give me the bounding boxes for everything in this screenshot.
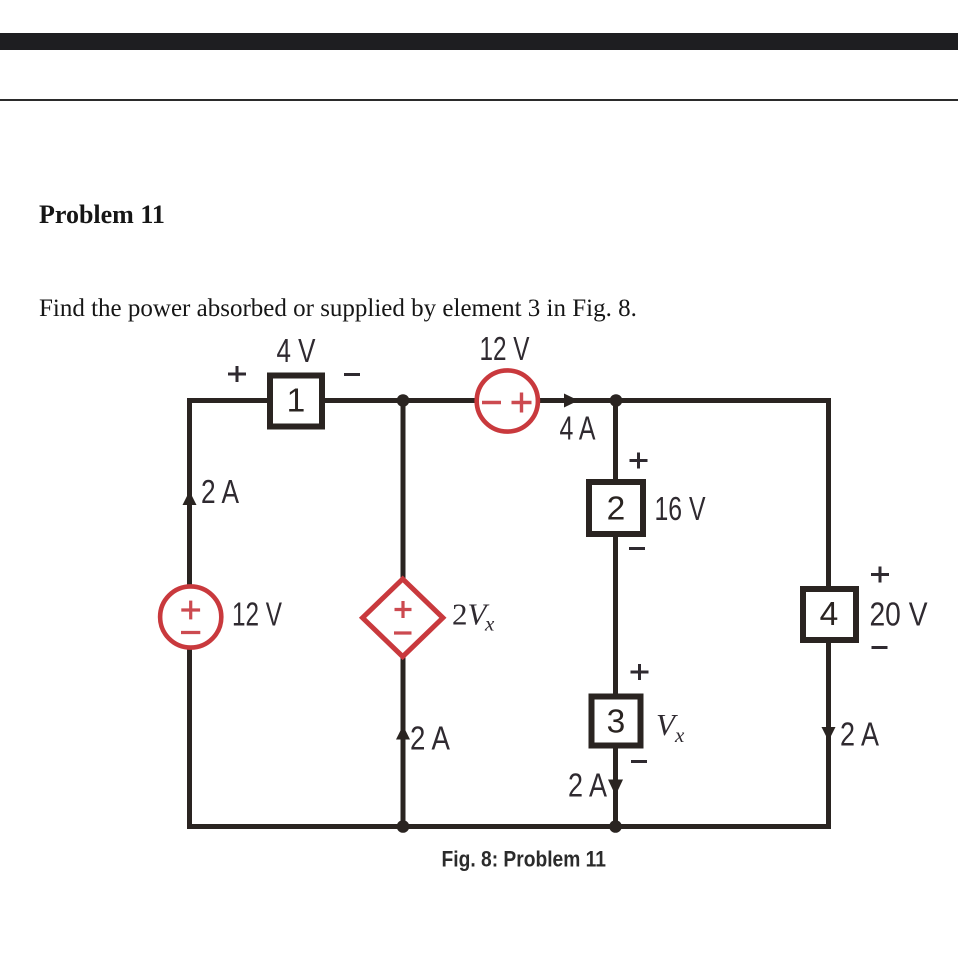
polarity - element 1 bbox=[344, 373, 360, 376]
svg-text:2 A: 2 A bbox=[201, 473, 239, 510]
element box 3 bbox=[592, 697, 641, 746]
node C bottom-middle junction bbox=[397, 820, 410, 833]
wire left vertical lower bbox=[187, 648, 192, 829]
wire element-2-3 branch lower bbox=[613, 745, 618, 827]
label 2Vx bbox=[452, 597, 495, 636]
wire middle branch upper bbox=[401, 401, 406, 583]
polarity - element 4 bbox=[872, 646, 888, 649]
svg-text:2 A: 2 A bbox=[410, 720, 450, 757]
node D bottom element-3 junction bbox=[609, 820, 622, 833]
voltage source V1 12V top (circle - +) bbox=[477, 370, 538, 431]
wire left vertical upper bbox=[187, 398, 192, 586]
svg-text:12 V: 12 V bbox=[480, 330, 530, 367]
wire middle branch lower bbox=[401, 654, 406, 827]
arrow 2A element-3 branch (down) bbox=[608, 780, 623, 796]
svg-text:12 V: 12 V bbox=[232, 596, 282, 633]
svg-text:1: 1 bbox=[287, 383, 306, 420]
wire top left segment bbox=[187, 398, 268, 403]
top black bar bbox=[0, 33, 958, 50]
svg-text:Fig. 8: Problem 11: Fig. 8: Problem 11 bbox=[442, 847, 607, 872]
svg-text:2V: 2V bbox=[452, 597, 490, 632]
element box 4 bbox=[803, 589, 856, 640]
wire top middle segment bbox=[324, 398, 477, 403]
polarity - element 2 bbox=[629, 547, 645, 550]
svg-text:4 V: 4 V bbox=[277, 332, 316, 369]
polarity + element 3 bbox=[631, 664, 649, 680]
svg-text:16 V: 16 V bbox=[655, 490, 706, 527]
svg-text:2 A: 2 A bbox=[568, 767, 607, 804]
wire top right segment bbox=[538, 398, 831, 403]
polarity - element 3 bbox=[631, 760, 647, 763]
arrow 4A current (right) bbox=[564, 394, 579, 408]
polarity + element 4 bbox=[871, 567, 889, 583]
svg-text:2: 2 bbox=[607, 491, 626, 528]
horizontal rule bbox=[0, 99, 958, 101]
voltage source V2 12V left (circle +/-) bbox=[160, 586, 221, 647]
wire right vertical upper bbox=[826, 398, 831, 589]
label Vx bbox=[656, 707, 685, 747]
node A top-middle junction bbox=[397, 394, 410, 407]
element box 2 bbox=[589, 482, 643, 534]
arrow 2A right branch (down) bbox=[822, 727, 836, 741]
wire bottom bbox=[187, 824, 831, 829]
wire element-2-3 branch upper bbox=[613, 401, 618, 483]
element box 1 bbox=[270, 376, 322, 427]
dependent source 2Vx (diamond) bbox=[363, 579, 443, 657]
wire right vertical lower bbox=[826, 640, 831, 829]
svg-text:4 A: 4 A bbox=[560, 410, 596, 447]
svg-text:x: x bbox=[484, 612, 495, 636]
heading Problem 11 bbox=[39, 200, 165, 230]
node B top element-2 junction bbox=[610, 394, 623, 407]
polarity + element 2 bbox=[630, 453, 648, 469]
wire element-2-3 branch middle bbox=[613, 534, 618, 697]
polarity + element 1 bbox=[228, 366, 246, 382]
arrow 2A middle branch (up) bbox=[396, 726, 410, 740]
svg-text:x: x bbox=[674, 723, 685, 747]
svg-text:2 A: 2 A bbox=[840, 716, 879, 753]
svg-text:4: 4 bbox=[820, 596, 839, 633]
svg-text:20 V: 20 V bbox=[870, 596, 928, 633]
problem statement bbox=[39, 295, 637, 323]
svg-text:3: 3 bbox=[607, 704, 626, 741]
arrow 2A left branch (up) bbox=[183, 491, 197, 505]
